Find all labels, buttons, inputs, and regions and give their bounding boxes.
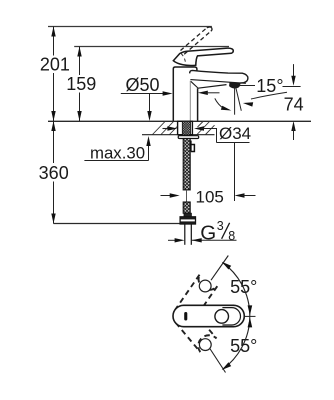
15° label right leader / 74 top reference xyxy=(283,86,301,88)
svg-text:8: 8 xyxy=(228,229,235,243)
dimension 105 left arrow xyxy=(161,195,173,197)
Ø50 leader underline xyxy=(121,93,165,95)
dimension 105 right arrow xyxy=(235,193,245,197)
handle rotated down (dashed) xyxy=(176,309,217,352)
dimension 159 arrows xyxy=(77,47,81,57)
hose coupling xyxy=(184,213,191,217)
mid arrows xyxy=(248,305,253,315)
15° arc left with arrow xyxy=(215,98,224,108)
deck reference line xyxy=(48,120,311,122)
max.30 arrow to deck underside xyxy=(148,144,150,161)
top reference line (raised lever height) xyxy=(48,26,212,28)
spout underside back line xyxy=(190,80,246,84)
55° legs xyxy=(211,256,228,281)
svg-text:max.30: max.30 xyxy=(90,144,145,163)
Ø34 drop line xyxy=(234,143,236,202)
Ø50 right arrow at body xyxy=(198,91,208,95)
body right wall xyxy=(197,88,199,121)
spout corner chamfer xyxy=(191,81,198,88)
cap circle rotated up xyxy=(199,280,211,292)
dimension 74 top arrow xyxy=(293,64,295,78)
dimension 201 line xyxy=(53,27,55,122)
svg-text:159: 159 xyxy=(66,74,96,94)
svg-text:360: 360 xyxy=(39,163,69,183)
svg-text:G: G xyxy=(200,222,216,245)
Ø50 drop line to deck xyxy=(149,94,151,114)
lever neck line xyxy=(196,56,198,65)
dimension 360 line xyxy=(53,121,55,224)
flexible hose lower xyxy=(183,202,190,213)
dimension 74 bottom arrow xyxy=(291,121,295,131)
spout fill xyxy=(190,70,248,88)
zero reference line xyxy=(244,315,256,317)
hex nut xyxy=(180,217,195,224)
threaded rod xyxy=(182,121,190,135)
raised lever tip xyxy=(207,27,212,31)
cap circle rotated down xyxy=(199,339,211,351)
lever-height reference line xyxy=(74,46,229,48)
arc top arrowhead xyxy=(222,262,232,270)
deck slab hatching right xyxy=(197,122,215,135)
Ø34 left arrow xyxy=(163,128,171,130)
faucet deck slab hatching left xyxy=(153,122,178,135)
G3/8 left-side arrow xyxy=(168,239,177,241)
handle slot xyxy=(184,312,187,321)
svg-text:55°: 55° xyxy=(230,336,257,356)
swivel arc xyxy=(223,263,250,370)
lever knob and handle xyxy=(173,48,233,65)
deck underside line left xyxy=(142,134,177,136)
svg-text:15°: 15° xyxy=(256,76,283,96)
body outline xyxy=(173,67,197,121)
svg-text:Ø34: Ø34 xyxy=(219,124,251,143)
svg-text:3: 3 xyxy=(217,219,224,233)
Ø50 drop arrow xyxy=(147,111,151,121)
shank sleeve below deck xyxy=(178,121,193,134)
handle top view (solid) xyxy=(173,305,244,326)
aerator xyxy=(230,83,241,88)
knob hidden dashes xyxy=(181,54,185,62)
supply pipe xyxy=(185,224,192,245)
body inner contour xyxy=(189,81,191,121)
flexible hose upper xyxy=(183,139,190,190)
faucet body xyxy=(173,48,248,121)
svg-text:74: 74 xyxy=(284,94,304,114)
hose break centerline xyxy=(186,190,188,202)
washer under deck xyxy=(178,136,199,139)
arc bottom arrowhead xyxy=(222,362,232,370)
Ø50 leader arrow xyxy=(163,91,173,95)
handle rotated up (dashed) xyxy=(175,274,217,322)
360 bottom reference line xyxy=(54,223,181,225)
dimension 201 arrows xyxy=(51,27,55,37)
svg-text:105: 105 xyxy=(196,187,224,206)
max.30 underline xyxy=(84,160,148,162)
hose clip xyxy=(191,141,195,152)
dimension 159 line xyxy=(79,47,81,122)
svg-text:201: 201 xyxy=(40,54,70,74)
Ø34 right arrow and leader xyxy=(194,126,204,130)
cartridge cap circle xyxy=(215,310,229,324)
spout underside front line xyxy=(198,85,227,89)
svg-text:55°: 55° xyxy=(230,277,257,297)
dimension 360 arrows xyxy=(51,121,55,131)
15° arc right with arrow xyxy=(251,92,287,99)
G3/8 underline with left arrow xyxy=(192,239,237,241)
svg-text:Ø50: Ø50 xyxy=(126,75,160,95)
15° angle legs xyxy=(234,88,236,115)
15° leader to aerator xyxy=(240,85,256,87)
label G 3/8 xyxy=(200,219,235,244)
handle inner end contour xyxy=(222,308,240,325)
deck underside line right xyxy=(193,134,215,136)
raised lever (dashed) xyxy=(181,28,211,54)
spout top edge and nose xyxy=(190,70,248,83)
